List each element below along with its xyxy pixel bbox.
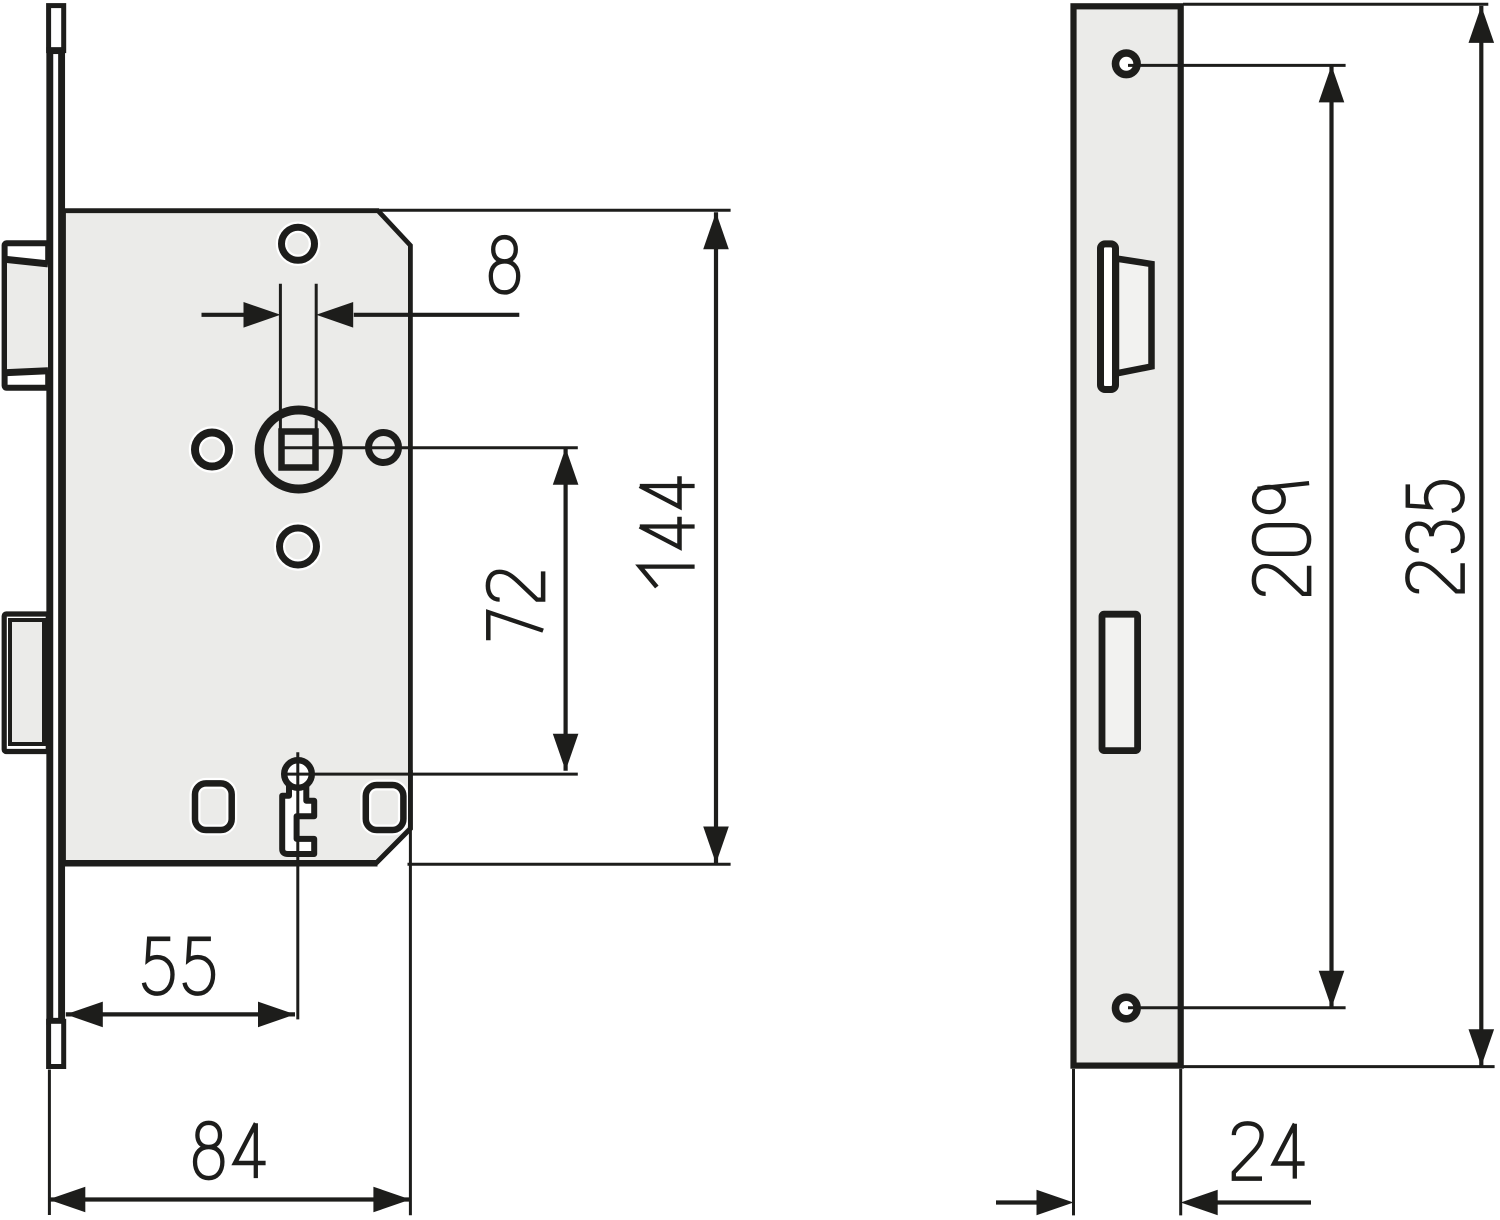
dimension 8 line bbox=[202, 313, 244, 317]
spindle hub circle bbox=[259, 410, 338, 489]
case right edge over halo (redraw) bbox=[376, 770, 410, 863]
extension line for 84, right bbox=[409, 829, 412, 1215]
dimension label 235 bbox=[1407, 482, 1462, 591]
dimension 144 line bbox=[714, 212, 718, 863]
faceplate (front view) bbox=[1074, 6, 1181, 1065]
extension line: plate top edge extended (for 235) bbox=[1183, 3, 1488, 6]
spindle square (8 mm follower) bbox=[282, 432, 316, 468]
dimension label 84 bbox=[195, 1123, 266, 1178]
dimension label 72 bbox=[488, 571, 543, 640]
extension line for 84, left bbox=[48, 1070, 51, 1216]
deadbolt (side view, protruding left) bbox=[4, 614, 48, 752]
dimension label 144 bbox=[640, 476, 695, 587]
dimension label 55 bbox=[144, 939, 213, 994]
extension line: spindle square left side (for 8) bbox=[279, 284, 282, 430]
faceplate strip body bbox=[50, 51, 62, 1022]
top screw hole bbox=[1116, 53, 1138, 75]
keyhole circle bbox=[284, 760, 312, 788]
left guide hole bbox=[195, 433, 229, 467]
case bottom edge (thicker) bbox=[64, 860, 378, 867]
dimension 84 line bbox=[48, 1197, 410, 1201]
dimension label 8 bbox=[491, 237, 518, 292]
latch bolt face (narrow) bbox=[1101, 244, 1116, 390]
right guide hole bbox=[369, 433, 399, 463]
bottom-left rounded hole bbox=[195, 783, 232, 830]
centre line through spindle hub (for 72 top) bbox=[285, 446, 578, 449]
bottom screw hole bbox=[1116, 997, 1138, 1019]
extension line: bottom screw hole (for 209) bbox=[1128, 1006, 1346, 1009]
bottom-right rounded hole bbox=[366, 785, 404, 830]
extension line for 24, right bbox=[1179, 1069, 1182, 1216]
faceplate bottom end cap bbox=[49, 1021, 64, 1066]
extension line: case top edge extended right (for 144) bbox=[380, 209, 731, 212]
top fixing hole bbox=[282, 227, 315, 260]
latch bolt bevel (trapezoid) bbox=[1116, 259, 1152, 374]
centre line through keyhole, vertical (for 55) bbox=[296, 752, 299, 1019]
keyhole slot outline bbox=[282, 786, 314, 854]
dimension 24 line bbox=[996, 1200, 1037, 1204]
deadbolt slot bbox=[1102, 614, 1138, 750]
dimension label 209 bbox=[1254, 483, 1309, 594]
dimension 209 line bbox=[1329, 65, 1333, 1007]
latch bolt (side view, protruding left) bbox=[5, 243, 49, 387]
dimension 72 line bbox=[563, 448, 567, 771]
extension line for 24, left bbox=[1072, 1069, 1075, 1216]
dimension 235 line bbox=[1479, 6, 1483, 1066]
centre line through keyhole, horizontal (for 72 bottom) bbox=[284, 773, 578, 776]
extension line: case bottom edge extended right (for 144) bbox=[408, 863, 731, 866]
dimension 55 line bbox=[66, 1012, 295, 1016]
extension line: top screw hole (for 209) bbox=[1128, 64, 1346, 67]
extension line: plate bottom edge extended (for 235) bbox=[1183, 1065, 1495, 1068]
dimension label 24 bbox=[1234, 1123, 1305, 1178]
hole below spindle bbox=[280, 528, 317, 565]
faceplate strip top end cap bbox=[49, 6, 64, 51]
extension line: spindle square right side (for 8) bbox=[315, 284, 318, 430]
lock case body (front view) bbox=[64, 211, 411, 863]
